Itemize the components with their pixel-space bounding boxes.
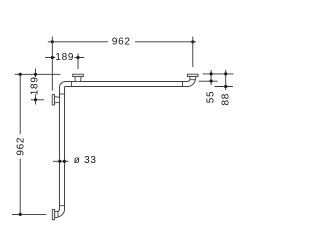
right end flange cap (188, 74, 199, 76)
dimension 962 top: left arrow dot (51, 40, 54, 43)
joint tick on horizontal tube left (x=71.5) (71, 81, 73, 86)
grab rail tube white core (53, 76, 193, 215)
dimension 88: top arrow dot (224, 72, 227, 75)
dimension 55 lower extension line (tube top, y=81.2) (199, 80, 218, 82)
grab rail tube outline (54, 76, 193, 215)
dimension 55: bottom arrow dot (210, 79, 213, 82)
bottom end flange cap (52, 209, 54, 219)
dimension 88 lower extension line (tube bottom, y=86.5) (215, 86, 233, 88)
svg-text:189: 189 (55, 52, 74, 63)
dimension ø33: left arrow dot (58, 160, 61, 163)
dimension 55: top arrow dot (210, 72, 213, 75)
right end flange collar (190, 77, 196, 80)
svg-text:962: 962 (112, 36, 131, 47)
dimension 962 top: line (48, 41, 108, 43)
dimension 962 left: bottom arrow dot (19, 213, 22, 216)
joint tick on vertical tube upper (y=94) (60, 93, 65, 95)
dimension 962 left: line (19, 74, 21, 134)
extension line top wall plane (y=74.3) (15, 73, 61, 75)
dimension 189 left: top arrow dot (34, 73, 37, 76)
joint tick on horizontal tube right (x=182.5) (182, 81, 184, 86)
joint tick on vertical tube lower (y=205.7) (60, 205, 65, 207)
left wall bracket collar (55, 97, 60, 103)
left wall bracket cap (52, 95, 54, 105)
extension line top bracket axis (x=78.0) (77, 54, 79, 70)
svg-text:962: 962 (15, 137, 26, 156)
svg-text:55: 55 (206, 91, 217, 104)
dimension 88: bottom arrow dot (224, 85, 227, 88)
dimension ø33: line across tube (53, 160, 69, 162)
svg-text:88: 88 (221, 93, 232, 106)
dimension 55: vertical line (210, 70, 212, 85)
extension line left bracket axis (y=99.8) (31, 99, 44, 101)
extension line right flange axis (x=192.8) (192, 37, 194, 68)
extension line left wall plane (x=52.3) (51, 37, 53, 91)
dimension 88: vertical line (225, 70, 227, 90)
dimension 189 left: bottom arrow dot (34, 98, 37, 101)
extension line bottom flange axis (y=214.4) (12, 213, 46, 215)
svg-text:189: 189 (29, 76, 40, 95)
dimension 962 top: right arrow dot (191, 40, 194, 43)
dimension ø33: right arrow dot (63, 160, 66, 163)
top wall bracket collar (75, 77, 81, 82)
dimension 189 top: right arrow dot (76, 56, 79, 59)
dimension 189 top: line (45, 57, 55, 59)
svg-text:ø 33: ø 33 (74, 155, 97, 166)
dimension 962 left: top arrow dot (19, 73, 22, 76)
dimension 189 left: line (35, 69, 37, 78)
top wall bracket cap (73, 74, 84, 76)
bottom end flange collar (55, 211, 58, 218)
dimension 189 top: left arrow dot (51, 56, 54, 59)
dimension 55/88 shared datum line (y=73.9) (203, 73, 234, 75)
